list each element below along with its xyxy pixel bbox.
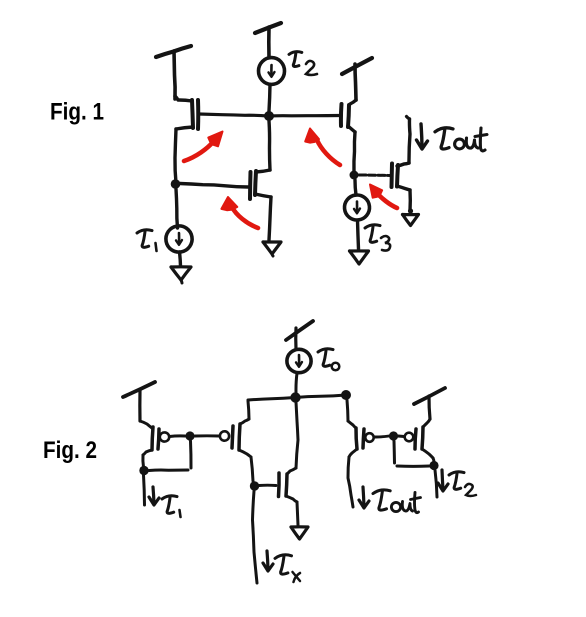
wire node F to M3 source: [347, 400, 348, 421]
node J: [139, 466, 148, 475]
arrow I2 direction: [438, 470, 448, 491]
svg-text:Fig. 2: Fig. 2: [43, 437, 97, 464]
power flag VDD (I2): [255, 23, 281, 57]
wire node C to T4 gate: [359, 174, 390, 178]
transistor M2: [219, 419, 251, 457]
transistor T2: [250, 170, 271, 199]
wire M4 drain to node I: [433, 458, 434, 462]
wire I0 to node E: [296, 373, 297, 392]
wire T3 drain to node C: [354, 132, 355, 171]
node I: [429, 461, 438, 470]
wire M3 drain down (Iout): [348, 457, 353, 507]
arrow Iout direction (Fig 2): [359, 487, 369, 508]
wire node B to T2 drain: [269, 121, 270, 170]
current source I2: [258, 57, 284, 84]
node B: [264, 111, 274, 121]
node A: [171, 179, 181, 189]
node E: [290, 392, 300, 402]
wire M2 drain to node G: [251, 457, 253, 481]
arrow Iout direction: [417, 124, 428, 149]
transistor M1: [140, 421, 170, 455]
label Ix: [275, 555, 300, 582]
transistor M4: [404, 419, 433, 458]
label Iout (Fig 1): [435, 128, 487, 151]
node G: [250, 481, 259, 490]
label I1 (Fig 2): [162, 496, 181, 517]
label I3: [365, 225, 390, 251]
node D: [185, 431, 194, 440]
wire T4 source to ground: [408, 190, 413, 214]
transistor T4: [392, 163, 411, 190]
ground (I1): [171, 267, 191, 283]
wire node A to T2 gate: [180, 184, 248, 188]
wire node D to M2 gate: [195, 434, 219, 437]
red arrow 1: [184, 132, 223, 162]
wire I2 to node B: [269, 85, 270, 112]
wire M1 gate to node D: [170, 434, 186, 438]
power flag VDD (T1): [156, 46, 191, 99]
transistor T3: [341, 100, 356, 132]
label I2 (Fig 2): [449, 472, 476, 496]
label Iout (Fig 2): [373, 490, 421, 513]
red arrow 3: [305, 129, 340, 166]
wire node J down (I1): [144, 475, 145, 505]
wire node H to M4 gate: [398, 435, 404, 438]
red arrow 4: [370, 185, 397, 209]
power flag VDD (M1): [123, 382, 155, 421]
wire I3 to ground: [358, 221, 359, 250]
label I0: [318, 349, 339, 371]
node C: [350, 171, 359, 180]
red arrow 2: [221, 197, 258, 228]
ground (M5): [291, 527, 308, 539]
power flag VDD (T3): [342, 58, 372, 100]
wire T4 drain up (Iout): [407, 117, 411, 164]
wire I1 to ground: [180, 252, 181, 266]
node H: [389, 431, 398, 440]
wire node C to I3: [355, 180, 356, 195]
label Fig. 1: [50, 99, 104, 126]
label Fig. 2: [43, 437, 97, 464]
current source I0: [287, 349, 312, 373]
power flag VDD (I0): [286, 321, 313, 349]
wire gate rail T1-T3: [199, 114, 339, 116]
node F: [341, 390, 351, 400]
wire node A to I1: [176, 189, 178, 228]
wire node D to node J: [149, 441, 191, 471]
wire M5 gate to node G: [259, 484, 276, 487]
wire T2 source to ground: [269, 197, 271, 240]
current source I1: [164, 224, 194, 254]
wire M5 source to ground: [297, 502, 298, 525]
label I1: [137, 230, 157, 251]
ground (T2): [263, 242, 281, 256]
wire M2 source to rail: [248, 401, 249, 419]
wire node G down (Ix): [253, 491, 258, 583]
wire rail (Fig 2): [248, 395, 346, 400]
arrow I1 direction: [149, 487, 159, 505]
wire M1 drain to node J: [141, 455, 145, 467]
transistor M3: [348, 421, 374, 457]
wire node I down (I2): [435, 470, 437, 497]
current source I3: [343, 194, 370, 221]
transistor T1: [175, 96, 198, 129]
ground (I3): [350, 251, 369, 264]
power flag VDD (M4): [414, 388, 445, 419]
wire M3 gate to node H: [375, 436, 390, 437]
arrow Ix direction: [263, 551, 273, 571]
transistor M5: [279, 468, 298, 502]
ground (T4): [403, 215, 419, 226]
wire T1 drain to node A: [175, 129, 176, 183]
label I2: [289, 52, 317, 75]
wire node I to node H: [394, 441, 430, 466]
svg-text:Fig. 1: Fig. 1: [50, 99, 104, 126]
wire node E to M5 drain: [296, 402, 298, 468]
